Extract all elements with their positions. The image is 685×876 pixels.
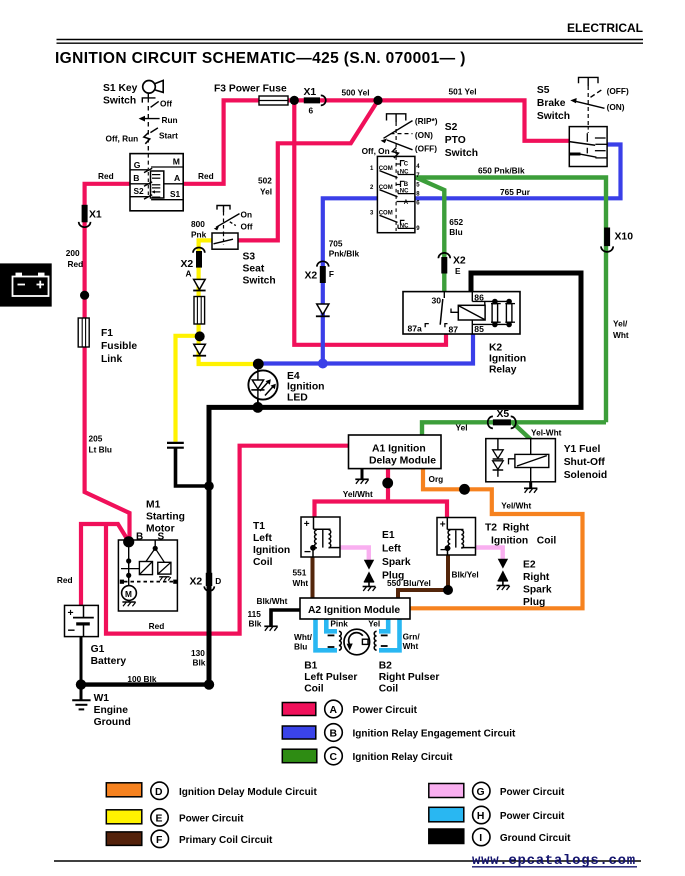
svg-text:Yel/: Yel/ — [613, 319, 628, 329]
svg-text:Starting: Starting — [146, 512, 185, 523]
svg-text:B1: B1 — [304, 661, 317, 672]
X1 top label and pin 6 — [304, 87, 317, 115]
G1 Battery label — [91, 644, 127, 667]
svg-text:E1: E1 — [382, 530, 395, 541]
svg-text:Switch: Switch — [103, 96, 136, 107]
junction dot yellow-blue-LED node — [253, 359, 264, 370]
svg-text:S2: S2 — [445, 122, 458, 133]
wire Pink cyan: A2 to B1 pulser coil — [326, 619, 337, 632]
X2 E labels — [453, 256, 466, 277]
A1 ground stub — [355, 469, 368, 484]
Y1 ground stub — [524, 482, 537, 493]
svg-text:Off: Off — [241, 222, 253, 232]
S1 key switch contact box — [130, 154, 183, 211]
svg-text:87a: 87a — [408, 324, 423, 334]
connector X1 (left) — [79, 205, 91, 227]
E1 Left Spark Plug label — [382, 530, 411, 582]
svg-text:B2: B2 — [379, 661, 392, 672]
svg-text:A1 Ignition: A1 Ignition — [372, 444, 426, 455]
svg-text:Blk: Blk — [193, 657, 206, 667]
200 Red label — [66, 248, 83, 269]
svg-text:205: 205 — [89, 434, 103, 444]
Red wire labels at S1 — [98, 171, 214, 181]
E4 Ignition LED — [248, 364, 277, 406]
legend I Ground Circuit — [429, 828, 571, 845]
svg-text:−: − — [68, 623, 76, 638]
X2 A labels — [181, 259, 194, 279]
Pink and Yel labels at A2 — [330, 619, 380, 629]
svg-text:Ground Circuit: Ground Circuit — [500, 833, 571, 844]
wire black: K2 86 loop around to ground bus — [209, 273, 581, 685]
Wht/Blu label — [294, 632, 313, 652]
W1 Engine Ground label — [94, 693, 131, 728]
svg-text:Off, Run: Off, Run — [106, 134, 139, 144]
205 Lt Blu label — [89, 434, 113, 455]
svg-text:Right: Right — [523, 572, 550, 583]
junction dot 500/501/502 Yel node — [373, 96, 382, 105]
svg-text:C: C — [404, 161, 409, 167]
S1 Key Switch label — [103, 83, 138, 107]
S2 PTO Switch labels — [362, 116, 478, 159]
130 Blk label — [191, 648, 206, 668]
wire Red: battery + up and over to M1 B terminal — [81, 524, 129, 606]
connector X2-A — [193, 248, 205, 268]
svg-text:(ON): (ON) — [415, 130, 433, 140]
svg-text:Lt Blu: Lt Blu — [89, 445, 113, 455]
wire black: capacitor to ground bus — [176, 448, 208, 486]
svg-text:501 Yel: 501 Yel — [449, 87, 477, 97]
K2 pin labels 30 86 87a 87 85 — [408, 293, 485, 335]
svg-text:Ignition: Ignition — [287, 382, 325, 393]
svg-text:Wht/: Wht/ — [294, 632, 313, 642]
svg-text:6: 6 — [309, 106, 314, 116]
wire: A1 module stub down to coil feed — [386, 469, 390, 502]
svg-text:Ground: Ground — [94, 717, 131, 728]
svg-text:Y1 Fuel: Y1 Fuel — [564, 444, 601, 455]
wire Red: S1-A to F3 Power Fuse riser — [183, 100, 260, 183]
svg-text:NC: NC — [400, 189, 409, 195]
svg-text:Wht: Wht — [293, 578, 309, 588]
svg-text:H: H — [477, 811, 485, 822]
svg-text:S5: S5 — [537, 85, 550, 96]
svg-text:S2: S2 — [134, 186, 145, 196]
S3 seat switch box — [212, 233, 238, 249]
svg-text:Left: Left — [382, 544, 401, 555]
svg-text:T1: T1 — [253, 521, 265, 532]
junction dot on 200 Red — [80, 291, 89, 300]
S5 Brake Switch labels — [537, 85, 629, 122]
S3 Seat Switch labels — [191, 210, 276, 287]
wire: coil feed T1 to T2 — [315, 502, 448, 519]
svg-text:Left: Left — [253, 533, 272, 544]
svg-text:Run: Run — [162, 115, 178, 125]
svg-text:100 Blk: 100 Blk — [127, 674, 156, 684]
svg-text:Red: Red — [68, 259, 84, 269]
wire Org orange: A1 module loop to A2 module — [411, 469, 583, 608]
551 Wht label — [293, 568, 309, 589]
svg-text:B: B — [136, 531, 143, 542]
svg-text:D: D — [155, 787, 163, 798]
F1 Fusible Link label — [101, 328, 137, 365]
svg-text:X10: X10 — [615, 232, 634, 243]
svg-text:115: 115 — [248, 609, 262, 619]
svg-text:Ignition Relay Circuit: Ignition Relay Circuit — [353, 752, 454, 763]
capacitor (noise condenser) — [167, 443, 184, 448]
S3 Off contact dash — [230, 222, 236, 226]
S2 OFF contact line — [387, 140, 413, 150]
connector X2-F — [317, 261, 329, 283]
legend C Ignition Relay Circuit — [282, 747, 453, 765]
svg-text:551: 551 — [293, 568, 307, 578]
svg-text:B: B — [404, 182, 409, 188]
wire 705 Pnk/Blk blue: PTO to X2-F diode down to E4 node — [323, 198, 378, 363]
svg-text:Ignition Relay Engagement Circ: Ignition Relay Engagement Circuit — [353, 729, 516, 740]
svg-text:F1: F1 — [101, 328, 113, 339]
svg-text:(RIP*): (RIP*) — [415, 116, 438, 126]
svg-text:Yel: Yel — [368, 619, 380, 629]
diode D2 on yellow chain — [193, 344, 206, 355]
junction dot yellow node — [195, 331, 205, 341]
S1 Key Switch key icon — [143, 80, 164, 97]
svg-text:S: S — [158, 531, 165, 542]
svg-text:130: 130 — [191, 648, 205, 658]
S2 PTO pin labels — [370, 161, 420, 231]
flywheel with rotation arrow — [344, 629, 370, 655]
svg-text:86: 86 — [474, 293, 484, 303]
X2 D labels — [190, 576, 222, 588]
svg-text:G: G — [477, 787, 485, 798]
svg-text:Primary Coil Circuit: Primary Coil Circuit — [179, 835, 273, 846]
page marker black tab with battery icon — [0, 263, 52, 306]
K2 Ignition Relay box — [403, 292, 520, 334]
connector X5 — [488, 416, 516, 428]
svg-text:Yel/Wht: Yel/Wht — [501, 501, 531, 511]
svg-text:500 Yel: 500 Yel — [342, 87, 370, 97]
svg-text:G1: G1 — [91, 644, 105, 655]
svg-text:Org: Org — [429, 474, 444, 484]
svg-text:A: A — [174, 173, 180, 183]
svg-text:E: E — [156, 813, 163, 824]
junction dot blue node — [318, 359, 328, 369]
svg-text:I: I — [479, 833, 482, 844]
svg-text:Pink: Pink — [330, 619, 348, 629]
svg-text:502: 502 — [258, 176, 272, 186]
connector X10 — [601, 228, 613, 252]
S5 ON contact arm with arrow — [570, 98, 604, 108]
svg-text:Blu: Blu — [294, 642, 307, 652]
svg-text:IGNITION CIRCUIT SCHEMATIC—425: IGNITION CIRCUIT SCHEMATIC—425 (S.N. 070… — [55, 50, 466, 67]
svg-text:W1: W1 — [94, 693, 110, 704]
svg-text:K2: K2 — [489, 343, 502, 354]
wire Yel green: X5 run to A1 module — [422, 422, 606, 436]
svg-text:Engine: Engine — [94, 705, 129, 716]
svg-text:85: 85 — [474, 324, 484, 334]
svg-text:Seat: Seat — [243, 264, 265, 275]
svg-text:Battery: Battery — [91, 656, 127, 667]
B2 Right Pulser Coil — [374, 631, 387, 650]
wire 501 Yel: junction to S5 Brake Switch — [378, 100, 569, 140]
junction dot at fuse output — [290, 96, 299, 105]
svg-text:Solenoid: Solenoid — [564, 470, 607, 481]
svg-text:A2 Ignition Module: A2 Ignition Module — [308, 605, 400, 616]
wire 100 Blk: battery ground to bus — [81, 682, 209, 686]
wire Wht/Blu cyan: A2 to B1 pulser coil bottom — [316, 619, 338, 651]
junction dot M1 B terminal — [123, 536, 134, 547]
svg-text:E: E — [455, 266, 461, 276]
wire black: battery negative down to W1 — [80, 636, 83, 700]
S1 position labels — [106, 99, 179, 144]
svg-text:−: − — [304, 545, 311, 559]
G1 Battery — [65, 605, 99, 637]
junction dot on brown 550 Blu/Yel — [443, 585, 453, 595]
svg-text:X2: X2 — [305, 271, 318, 282]
svg-text:Blk/Wht: Blk/Wht — [257, 596, 288, 606]
legend D Ignition Delay Module Circuit — [106, 782, 317, 799]
legend F Primary Coil Circuit — [106, 830, 273, 847]
svg-text:Link: Link — [101, 354, 122, 365]
svg-text:Coil: Coil — [379, 684, 399, 695]
footer rule — [54, 860, 641, 862]
S2 PTO Switch plunger bracket — [387, 114, 406, 157]
junction dot on orange wire — [459, 484, 470, 495]
svg-text:Plug: Plug — [523, 597, 545, 608]
svg-text:800: 800 — [191, 219, 205, 229]
svg-text:Switch: Switch — [537, 111, 570, 122]
svg-text:30: 30 — [432, 296, 442, 306]
svg-text:COM: COM — [379, 185, 393, 191]
svg-text:Coil: Coil — [253, 557, 273, 568]
S2 wiper zigzag — [392, 148, 398, 159]
svg-text:Power Circuit: Power Circuit — [353, 705, 418, 716]
E1 Left Spark Plug — [363, 560, 376, 591]
F3 Power Fuse — [259, 96, 288, 105]
B1 Left Pulser Coil label — [304, 661, 357, 695]
svg-text:E4: E4 — [287, 371, 300, 382]
E2 Right Spark Plug label — [523, 560, 552, 609]
M1 B and S terminal labels — [136, 531, 165, 542]
svg-text:Power Circuit: Power Circuit — [500, 811, 565, 822]
Grn/Wht label — [403, 632, 421, 652]
S2 RIP contact arm with arrow — [381, 121, 413, 144]
svg-text:Ignition: Ignition — [253, 545, 290, 556]
502 Yel label — [258, 176, 272, 197]
svg-text:COM: COM — [379, 166, 393, 172]
svg-text:B: B — [330, 729, 338, 740]
Yel/Wht label right riser — [613, 319, 629, 341]
Blk/Wht and 115 Blk labels — [248, 596, 288, 629]
svg-text:Off, On: Off, On — [362, 146, 390, 156]
svg-text:550 Blu/Yel: 550 Blu/Yel — [387, 578, 431, 588]
svg-text:Fusible: Fusible — [101, 341, 137, 352]
svg-text:Delay Module: Delay Module — [369, 456, 436, 467]
header ELECTRICAL — [57, 21, 644, 43]
svg-text:A: A — [404, 200, 409, 206]
S5 Brake Switch plunger bracket — [579, 77, 599, 126]
svg-text:87: 87 — [449, 325, 459, 335]
svg-text:Yel: Yel — [260, 187, 272, 197]
svg-text:Spark: Spark — [382, 557, 411, 568]
connector X2-E — [438, 253, 450, 274]
junction dot E4 to ground bus — [252, 402, 263, 413]
svg-text:G: G — [134, 160, 141, 170]
S3 Seat Switch plunger bracket — [217, 206, 230, 234]
svg-text:200: 200 — [66, 248, 80, 258]
svg-text:LED: LED — [287, 392, 308, 403]
svg-text:B: B — [133, 173, 139, 183]
fuse element on yellow chain — [194, 297, 205, 325]
S1 key switch actuator bracket and dashed stem — [142, 98, 155, 154]
wire yellow branch to capacitor — [176, 336, 200, 442]
svg-text:Red: Red — [198, 171, 214, 181]
svg-text:X2: X2 — [190, 576, 203, 587]
svg-text:Ignition Coil: Ignition Coil — [491, 536, 556, 547]
svg-text:650 Pnk/Blk: 650 Pnk/Blk — [478, 166, 525, 176]
wire 200 Red / 205 Lt Blu: S1-B left down through X1, F1 to M1 B — [85, 184, 130, 541]
svg-text:F3 Power Fuse: F3 Power Fuse — [214, 84, 287, 95]
X2 F labels — [305, 269, 334, 282]
svg-text:C: C — [330, 752, 338, 763]
S5 OFF contact slash — [591, 89, 604, 98]
wire 551 Wht brown: T1 to A2 module — [311, 557, 315, 599]
svg-text:(OFF): (OFF) — [607, 86, 629, 96]
svg-text:Power Circuit: Power Circuit — [179, 813, 244, 824]
svg-text:Left Pulser: Left Pulser — [304, 672, 357, 683]
svg-text:Wht: Wht — [403, 641, 419, 651]
svg-text:Blk: Blk — [249, 618, 262, 628]
svg-text:Wht: Wht — [613, 330, 629, 340]
svg-text:Power Circuit: Power Circuit — [500, 787, 565, 798]
M1 Starting Motor label — [146, 500, 185, 535]
wire 652 Blu green: PTO down through X2-E to K2 pin 30 — [416, 178, 444, 294]
svg-text:+: + — [68, 608, 74, 619]
legend E Power Circuit — [106, 809, 244, 826]
S5 brake switch contact box — [569, 127, 607, 167]
wire 500 Yel: fuse to junction — [287, 98, 378, 102]
svg-text:+: + — [304, 519, 310, 530]
svg-text:M: M — [125, 589, 132, 599]
connector X1 (top) pin 6 — [304, 95, 326, 105]
svg-text:705: 705 — [329, 239, 343, 249]
svg-text:Blk/Yel: Blk/Yel — [452, 569, 479, 579]
A1 Ignition Delay Module box — [349, 435, 442, 469]
S3 On contact arm with arrow — [214, 214, 240, 231]
svg-text:Red: Red — [98, 171, 114, 181]
wire 650 Pnk/Blk green: PTO to right side riser down to X5 run — [415, 178, 607, 423]
E2 Right Spark Plug — [497, 559, 510, 590]
footer url www.epcatalogs.com — [472, 853, 637, 869]
svg-text:X2: X2 — [453, 256, 466, 267]
svg-text:M1: M1 — [146, 500, 161, 511]
svg-text:E2: E2 — [523, 560, 536, 571]
junction dot on A1 red stub — [382, 478, 393, 489]
svg-text:Yel-Wht: Yel-Wht — [531, 428, 562, 438]
svg-text:S1 Key: S1 Key — [103, 83, 138, 94]
T1 Left Ignition Coil label — [253, 521, 290, 568]
svg-text:COM: COM — [379, 211, 393, 217]
svg-text:652: 652 — [449, 217, 463, 227]
wire 800 Pnk yellow: S3 to X2-A diode chain down to E4 — [199, 240, 259, 364]
svg-text:NC: NC — [400, 223, 409, 229]
svg-text:S3: S3 — [243, 252, 256, 263]
wire pink: T1 to E1 Left Spark Plug — [340, 548, 369, 561]
652 Blu label — [449, 217, 463, 237]
W1 Engine Ground earth symbol — [72, 700, 90, 709]
T2 Right Ignition Coil — [437, 518, 476, 557]
svg-text:Relay: Relay — [489, 364, 517, 375]
wire Grn/Wht cyan: A2 to B2 pulser coil bottom — [379, 619, 400, 651]
svg-text:Switch: Switch — [445, 148, 478, 159]
svg-text:Off: Off — [160, 99, 172, 109]
svg-text:On: On — [241, 210, 253, 220]
legend A Power Circuit — [282, 700, 417, 718]
svg-text:M: M — [173, 157, 180, 167]
S2 ON contact dashes — [391, 133, 413, 135]
wire Yel cyan: A2 to B2 pulser coil — [379, 619, 388, 632]
diode D1 on yellow chain — [193, 279, 205, 290]
junction dot capacitor to ground bus — [204, 481, 214, 491]
svg-text:Spark: Spark — [523, 585, 552, 596]
junction dot ground bus — [204, 679, 214, 689]
svg-text:(OFF): (OFF) — [415, 143, 437, 153]
S2 PTO switch contact box — [377, 156, 415, 232]
E4 Ignition LED label — [287, 371, 325, 403]
A2 ground (115 Blk) — [264, 626, 277, 631]
connector X2-D — [204, 573, 214, 591]
F1 Fusible Link — [78, 318, 89, 347]
svg-text:Grn/: Grn/ — [403, 632, 421, 642]
svg-text:X1: X1 — [304, 87, 317, 98]
svg-text:X5: X5 — [497, 409, 510, 420]
svg-text:NC: NC — [400, 169, 409, 175]
legend G Power Circuit — [429, 782, 565, 799]
S1 Start contact slash — [150, 128, 158, 133]
svg-text:Right Pulser: Right Pulser — [379, 672, 440, 683]
wire 765 Pur blue: PTO right to S5 brake switch — [415, 145, 621, 199]
S1 terminal labels G M B A S2 S1 — [133, 157, 180, 200]
svg-text:D: D — [215, 576, 221, 586]
Y1 Fuel Shut-Off Solenoid label — [564, 444, 607, 481]
svg-text:F: F — [156, 835, 162, 846]
svg-text:Red: Red — [149, 621, 165, 631]
705 Pnk/Blk label — [329, 239, 360, 259]
svg-text:(ON): (ON) — [607, 102, 625, 112]
svg-text:ELECTRICAL: ELECTRICAL — [567, 21, 643, 35]
svg-text:Brake: Brake — [537, 98, 566, 109]
S1 Off,Run wiper zigzag — [144, 133, 150, 144]
svg-text:Pnk/Blk: Pnk/Blk — [329, 249, 360, 259]
svg-text:A: A — [186, 269, 192, 279]
wire Yel-Wht green: X5 to Y1 solenoid — [513, 423, 531, 440]
M1 Starting Motor box — [118, 540, 177, 611]
legend H Power Circuit — [429, 806, 565, 823]
T2 Right Ignition Coil label — [485, 523, 556, 547]
diode on blue wire — [316, 304, 330, 316]
svg-text:Switch: Switch — [243, 276, 276, 287]
svg-text:Yel/Wht: Yel/Wht — [343, 489, 373, 499]
svg-text:Blu: Blu — [449, 227, 462, 237]
wire blue: E4 node right to K2 pin 85 — [258, 334, 473, 364]
B2 Right Pulser Coil label — [379, 661, 440, 695]
svg-text:A: A — [330, 705, 338, 716]
svg-text:Start: Start — [159, 131, 178, 141]
B1 Left Pulser Coil — [328, 631, 342, 650]
A2 Ignition Module box — [300, 598, 410, 619]
svg-text:S1: S1 — [170, 189, 181, 199]
svg-text:+: + — [440, 520, 446, 531]
svg-text:T2 Right: T2 Right — [485, 523, 530, 534]
svg-text:PTO: PTO — [445, 135, 466, 146]
wire pink: T2 to E2 Right Spark Plug — [475, 548, 503, 560]
